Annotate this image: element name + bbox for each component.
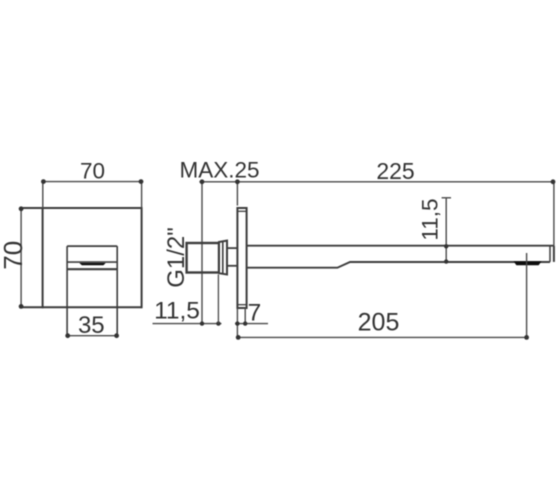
dimension 11,5 bottom-left: right arrow dot: [216, 321, 220, 325]
svg-text:MAX.25: MAX.25: [179, 158, 259, 183]
dimension 70 left: dimension line: [20, 208, 22, 307]
top dimension line (MAX.25 and 225): [199, 181, 554, 183]
flange inner line: [222, 241, 224, 274]
dimension 7: left extension line (plate back, continues to 205): [236, 308, 238, 337]
spout front face bottom edge: [67, 268, 117, 270]
dimension 205: left arrow dot: [236, 335, 241, 340]
spout tube top edge: [247, 245, 554, 247]
dimension 11,5 right: top arrow dot: [444, 244, 448, 248]
connecting pipe top line: [227, 247, 237, 249]
dimension 11,5 right: dimension line: [445, 198, 447, 264]
aerator outlet bar: [514, 261, 542, 265]
wall plane extension line: [201, 182, 203, 324]
dimension 35: left arrow dot: [65, 333, 70, 338]
flange extension line (bottom): [217, 275, 219, 324]
svg-text:G1/2": G1/2": [163, 227, 190, 288]
MAX.25 / 225 shared arrow dot: [235, 179, 240, 184]
threaded nipple G1/2 body: [187, 243, 219, 273]
dimension 7: right extension line: [244, 308, 246, 324]
dimension 7: right arrow dot: [243, 321, 247, 325]
wall plate side view: [237, 208, 246, 308]
wall plate square right edge: [141, 207, 143, 308]
dimension 70 left: top arrow dot: [19, 206, 24, 211]
dimension 70 top: left arrow dot: [41, 179, 46, 184]
wall plate square bottom edge: [21, 306, 142, 308]
wall plate square top edge: [21, 207, 142, 209]
svg-text:7: 7: [248, 300, 262, 327]
svg-text:225: 225: [376, 158, 414, 184]
svg-text:70: 70: [80, 159, 105, 184]
spout front face middle line: [67, 261, 117, 263]
svg-text:205: 205: [358, 309, 400, 337]
water outlet slot (front): [79, 263, 105, 265]
dimension 11,5 bottom-left: left arrow dot: [200, 321, 204, 325]
dimension 70 top: left extension line: [42, 182, 44, 208]
spout front face left edge / 35 extension line: [66, 246, 68, 336]
dimension 7: dimension line: [235, 323, 268, 325]
dimension 35: right arrow dot: [114, 333, 119, 338]
225 right arrow dot: [551, 179, 556, 184]
svg-text:11,5: 11,5: [154, 297, 200, 324]
spout end cap inner line: [549, 246, 551, 262]
dimension 70 top: dimension line: [43, 181, 142, 183]
dimension 205: outlet extension line: [526, 253, 528, 337]
dimension 11,5 right: bottom arrow dot: [444, 259, 448, 263]
spout front face right edge / 35 extension line: [116, 246, 118, 336]
spout end right edge: [553, 246, 555, 262]
svg-text:70: 70: [0, 241, 28, 270]
dimension 205: dimension line: [237, 336, 527, 338]
spout tube bottom profile: [247, 262, 550, 268]
connecting pipe bottom line: [227, 265, 237, 267]
dimension 205: right arrow dot: [524, 335, 529, 340]
nipple flange cone: [219, 241, 227, 275]
wall plate square left edge: [42, 207, 44, 308]
wall plate top chamfer line: [237, 210, 246, 212]
dimension 70 top: right arrow dot: [139, 179, 144, 184]
plate back extension line (top): [236, 182, 238, 206]
svg-text:35: 35: [78, 312, 105, 339]
spout front face top edge: [67, 245, 117, 247]
dimension 70 top: right extension line: [141, 182, 143, 208]
dimension 7: left arrow dot: [235, 321, 239, 325]
dimension 11,5 right: top tick: [442, 197, 451, 199]
wall plate bottom chamfer line: [237, 304, 246, 306]
dimension 35: dimension line: [67, 335, 117, 337]
dimension 11,5 bottom-left: dimension line: [153, 323, 222, 325]
MAX.25 left arrow dot: [200, 179, 205, 184]
tube end extension line (top): [553, 182, 555, 246]
dimension 70 left: bottom arrow dot: [19, 304, 24, 309]
svg-text:11,5: 11,5: [418, 198, 443, 240]
